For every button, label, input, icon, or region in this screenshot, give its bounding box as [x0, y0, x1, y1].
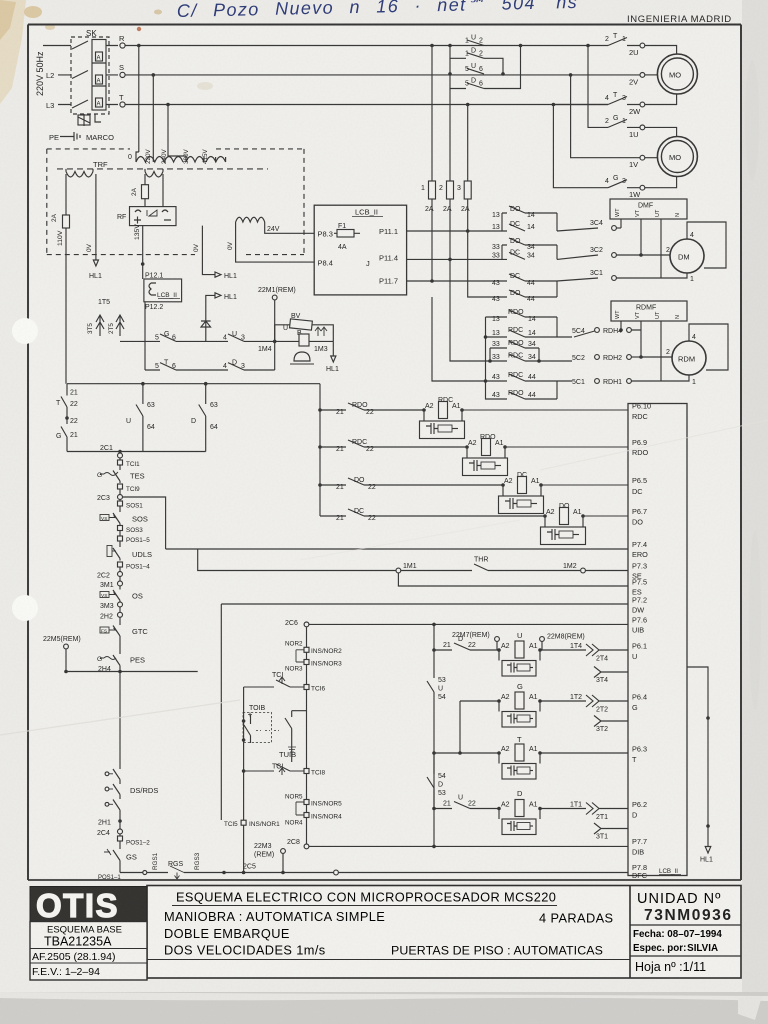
chain wire 2C1 top: [119, 452, 121, 454]
relay coil RDC: [420, 397, 629, 439]
main switch SK label: [86, 29, 97, 38]
wire SE row with 1M1 THR 1M2: [198, 549, 628, 573]
0V label 24V winding: [227, 241, 234, 250]
rail bottom right section: [432, 624, 436, 846]
contact DS/RDS 3: [105, 796, 120, 818]
relay DO row with contact 21 DC 22: [320, 508, 545, 522]
wire 110V to T rail: [65, 228, 67, 384]
sheet frame border: [28, 25, 741, 881]
wire DFC row: [338, 872, 628, 874]
transformer TRF dashed box: [47, 149, 304, 255]
TITLE BLOCK: [28, 880, 741, 980]
LCB_II pin box right: [628, 402, 687, 880]
terminal S: [119, 63, 125, 78]
contact 4T3 terminal 2W: [553, 92, 676, 116]
contact 5G6: [155, 331, 176, 342]
contact OS: [100, 589, 143, 602]
wire 3T4 stub: [594, 667, 628, 685]
terminal 22M8(REM): [540, 634, 585, 651]
fuse column wires: [432, 46, 468, 182]
terminal 22M7(REM): [452, 632, 499, 650]
dashed core line: [57, 168, 268, 170]
terminal 2C2: [97, 572, 123, 581]
contact pair 43DC44 / 43DO44: [468, 231, 598, 303]
relay coil T: [434, 735, 628, 779]
contact 2G1 terminal 1U: [586, 44, 676, 139]
secondary 135V winding: [145, 169, 163, 177]
wire 2C3 to ERO: [123, 497, 166, 549]
main switch SK dashed enclosure: [71, 37, 109, 114]
wire RF to P12: [141, 226, 145, 279]
relay coil U: [497, 631, 586, 676]
terminal TCI8: [304, 769, 325, 777]
motor RDM: [672, 341, 706, 375]
fuse 3 2A: [457, 181, 471, 213]
terminal 5C4 RDH4: [572, 328, 641, 337]
terminal TCI9: [118, 484, 141, 495]
node S feeder: [152, 73, 156, 152]
terminal INS/NOR2: [285, 641, 342, 663]
terminal 3C1: [590, 270, 661, 280]
contact 1M3: [314, 327, 328, 353]
110V label: [57, 230, 64, 246]
node R feeder: [137, 44, 141, 152]
contact SOS: [100, 511, 148, 526]
riser 2C6 to 2C8: [306, 627, 308, 844]
terminal 3C2: [590, 247, 641, 257]
terminal 1V: [569, 73, 658, 169]
wire P11.1: [407, 229, 502, 233]
relay RDC row with contact 21 RDO 22: [320, 402, 424, 416]
TUIB label: [279, 750, 296, 759]
relay coil RDO: [463, 434, 629, 476]
terminal R: [119, 34, 125, 48]
contact 1U2 on R bus: [465, 35, 484, 46]
contact PES: [97, 648, 145, 672]
1T5 arrows: [87, 299, 124, 336]
hole punch bottom: [12, 595, 38, 621]
operator box RDMF: [611, 301, 687, 321]
unidad box: [629, 886, 631, 979]
wire 1T1 chevrons to P6.2: [570, 802, 628, 822]
contact TCI upper: [244, 672, 304, 687]
22M1(REM) terminal: [258, 287, 296, 341]
chain wire long drop: [119, 672, 121, 769]
wire row 5G6 4U3: [120, 340, 275, 342]
contact UDLS: [107, 546, 152, 561]
terminal 2H2: [100, 612, 123, 624]
terminal 2H1: [98, 819, 122, 826]
contact POS1-2: [118, 836, 151, 847]
contact 5U6 on S bus: [448, 63, 505, 76]
motor DM: [670, 239, 704, 273]
wire 1T2 chevrons to P6.4: [570, 694, 628, 714]
motor MO lower: [657, 137, 697, 177]
tap wires: [136, 152, 226, 162]
PE MARCO ground: [49, 132, 114, 142]
contact 4G3 terminal 1W: [553, 105, 676, 200]
terminal 3M3: [100, 602, 123, 612]
terminal POS1-1: [98, 875, 121, 881]
wire row 5T6 4D3: [145, 341, 275, 370]
contact 2T1 to motor MO1: [605, 33, 677, 57]
OTIS info box: [30, 922, 147, 981]
wire bottom bus mid-left: [67, 450, 206, 454]
contact pair 33DO34 / 33DC34: [492, 238, 598, 259]
DM wiring loop: [641, 222, 726, 283]
terminal 3M1: [100, 581, 123, 589]
terminal 2C3: [97, 495, 123, 503]
relay U row with contact 21 D 22: [434, 636, 499, 650]
HL1 arrow right of pin box: [687, 667, 713, 864]
RDMF pin wires: [619, 321, 661, 381]
fuse 2A 135V: [131, 174, 149, 199]
fuse 1 2A: [421, 181, 436, 213]
terminal 2C4: [97, 818, 123, 837]
terminal 2C6: [285, 620, 309, 627]
rail for relay rows: [318, 384, 322, 516]
220V 50Hz label: [35, 51, 45, 96]
riser DW row: [220, 604, 222, 820]
wire PES row to SE riser: [64, 670, 198, 674]
relay RDO row with contact 21 RDC 22: [320, 439, 467, 453]
wire DW row: [221, 603, 628, 605]
fuse F1 4A: [334, 223, 360, 251]
tap 415V label: [202, 148, 209, 164]
L2 phase lead: [46, 71, 118, 81]
terminal 2C5: [243, 864, 338, 875]
tap 220V label: [145, 148, 152, 164]
contact TOIB dashed: [243, 705, 307, 752]
wire 110V drop: [65, 174, 67, 215]
branch 5D6: [450, 46, 521, 89]
connector P12.1 P12.2 LCB_II: [144, 273, 182, 311]
frame bottom line: [28, 879, 741, 881]
terminal 2H4: [98, 666, 111, 673]
relay D row with contact 21 U 22: [434, 795, 499, 809]
node 1M4: [258, 340, 277, 353]
135V label: [134, 224, 141, 240]
RDM wiring loop: [641, 324, 728, 386]
node between T and G contacts: [65, 416, 69, 420]
wire bottom chain row: [120, 871, 336, 875]
terminal 2C8: [287, 839, 309, 849]
relay DC row with contact 21 DO 22: [320, 477, 503, 491]
branch 1D2: [450, 46, 503, 74]
operator box DMF: [610, 199, 687, 219]
relay coil DO: [541, 503, 629, 545]
contact GTC: [100, 624, 148, 648]
title block outer box: [147, 886, 741, 979]
HL1 down arrow right of bell: [326, 341, 339, 373]
tap 0 label: [128, 154, 132, 161]
terminal 3C4: [590, 220, 621, 230]
wire S bus: [125, 74, 570, 76]
relay coil DC: [499, 472, 629, 514]
wire P11.4: [407, 258, 502, 262]
transformer primary winding: [136, 157, 226, 163]
TRF label: [93, 160, 108, 169]
contact TES: [97, 469, 145, 483]
diode to bell line: [201, 313, 211, 341]
terminal 5C1 RDH1: [572, 379, 661, 386]
24V label: [267, 226, 280, 233]
contact T 21/22 on left rail: [56, 384, 78, 412]
contact TCI lower: [244, 743, 304, 775]
terminal TCI6: [304, 685, 325, 693]
microprocessor box LCB_II: [314, 205, 406, 295]
contact GS: [104, 843, 137, 873]
varistor BV: [275, 313, 334, 341]
node T feeders right: [466, 103, 555, 107]
secondary 110V winding: [66, 169, 93, 177]
contact pair 13RDO14 / 13RDC14: [484, 309, 572, 339]
terminal SOS1: [118, 501, 144, 511]
contact 4D3: [223, 360, 245, 370]
node R-col2: [448, 44, 452, 48]
terminal 2V: [571, 73, 658, 87]
terminal TCI1: [118, 460, 141, 469]
DMF pin wires: [621, 219, 661, 278]
contact 54 D 53 on rail: [427, 753, 446, 809]
terminal POS1-4: [118, 562, 151, 572]
node R-col1: [430, 44, 434, 48]
terminal POS1-5: [118, 536, 151, 546]
terminal 2C1: [100, 445, 123, 460]
riser G row: [458, 701, 462, 755]
contact DS/RDS 1: [105, 768, 120, 781]
hole punch top: [12, 318, 38, 344]
coil B bell: [275, 330, 334, 346]
terminal 5C2 RDH2: [572, 355, 641, 362]
contact pair 33RDO34 / 33RDC34: [450, 259, 572, 362]
24V wires to LCB: [236, 224, 315, 262]
contact 53 U 54 on rail: [427, 670, 446, 701]
relay coil G: [460, 682, 586, 727]
left rail TOIB section: [242, 687, 246, 874]
tap 380V label: [183, 148, 190, 164]
wire 3T2 stub: [594, 716, 628, 734]
faint creases: [0, 700, 240, 735]
terminal INS/NOR5: [285, 794, 342, 816]
contact pair 43RDC44 / 43RDO44: [432, 297, 572, 399]
wire DIB row: [309, 845, 628, 849]
terminal TCI5 INS/NOR1: [224, 820, 280, 828]
motor MO upper: [657, 54, 697, 94]
wire 1T4 chevrons to P6.1: [570, 643, 628, 663]
contact 5T6: [155, 360, 176, 370]
wire P12 down: [144, 302, 146, 370]
terminal INS/NOR3: [285, 660, 342, 673]
L1 phase lead: [43, 41, 118, 49]
node R-1U2 right: [519, 44, 523, 48]
wire ERO row: [166, 548, 628, 550]
0V branch HL1 arrow left: [86, 174, 102, 280]
wire UIB row: [309, 623, 628, 627]
SK aux fuse holder: [78, 114, 101, 126]
fuse block of SK: [92, 40, 106, 111]
OTIS logo block: [30, 887, 147, 922]
fuse column wires below: [432, 199, 468, 281]
contact G 22/21 on left rail: [56, 412, 78, 452]
secondary 24V winding: [236, 217, 265, 224]
terminal SOS3: [118, 526, 144, 537]
terminal 22M3 REM: [254, 843, 285, 874]
0V branch mid HL1 arrow: [193, 226, 237, 280]
wire 3T1 stub: [594, 823, 628, 841]
wire P11.7: [407, 279, 502, 283]
terminal T: [119, 93, 125, 107]
contact 4U3: [223, 331, 245, 342]
contact RGS: [152, 852, 201, 879]
gong speaker symbol: [290, 352, 314, 364]
HL1 arrow second: [206, 293, 237, 313]
fuse 2 2A: [439, 181, 454, 213]
L3 phase lead: [46, 100, 118, 110]
wire ES row: [398, 573, 628, 586]
node T feeder: [166, 103, 170, 152]
wire R bus: [125, 45, 608, 47]
wire T bus: [125, 104, 608, 106]
relay coil D: [497, 789, 586, 835]
terminal INS/NOR4: [285, 813, 342, 827]
contact pair 13DO14 / 13DC14: [492, 206, 598, 231]
contact D 63/64: [191, 384, 218, 452]
terminal 22M5(REM): [43, 636, 81, 672]
contact DS/RDS 2: [105, 781, 158, 796]
tap 240V label: [161, 148, 168, 164]
contact U 63/64: [126, 384, 155, 452]
rectifier RF: [117, 174, 176, 226]
wire top bus mid-left: [67, 382, 320, 386]
fuse 2A 110V: [51, 213, 70, 228]
